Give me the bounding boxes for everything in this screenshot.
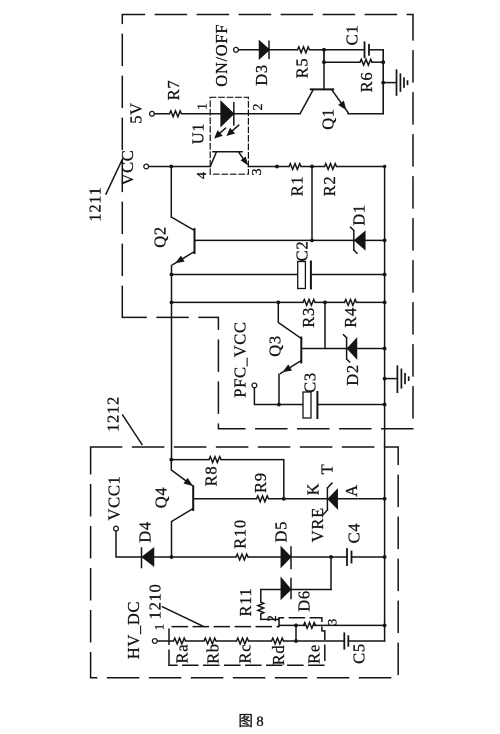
svg-text:VCC1: VCC1 (105, 476, 124, 521)
svg-text:D5: D5 (272, 521, 291, 543)
wire R11 to pin2 (261, 615, 279, 620)
terminal ON/OFF (234, 47, 239, 52)
svg-text:1211: 1211 (86, 186, 105, 221)
svg-text:U1: U1 (189, 123, 208, 145)
svg-text:Q3: Q3 (266, 335, 285, 357)
svg-text:3: 3 (250, 169, 265, 176)
svg-text:2: 2 (264, 615, 279, 622)
resistor R6 (360, 59, 372, 65)
svg-text:5V: 5V (127, 102, 146, 124)
resistor R4 (345, 300, 357, 306)
diode D3 (260, 41, 270, 58)
leader line 1212 (123, 415, 142, 445)
resistor R11 (258, 602, 264, 614)
svg-text:D6: D6 (295, 590, 314, 612)
svg-text:R3: R3 (299, 307, 318, 328)
resistor Rc (237, 638, 249, 644)
svg-text:1: 1 (196, 103, 211, 110)
svg-text:R9: R9 (251, 472, 270, 493)
resistor R7 (170, 111, 182, 117)
svg-text:Q2: Q2 (151, 226, 170, 248)
svg-text:R6: R6 (357, 72, 376, 93)
resistor R5 (298, 47, 310, 53)
svg-text:1: 1 (152, 624, 167, 631)
svg-text:Rd: Rd (269, 645, 288, 666)
svg-text:Q1: Q1 (319, 108, 338, 130)
capacitor C5 (344, 633, 384, 648)
opto phototransistor (pin4-pin3) (210, 152, 247, 167)
svg-text:3: 3 (325, 619, 340, 626)
resistor R8 (209, 457, 221, 463)
transistor Q4 (171, 460, 256, 557)
svg-text:HV_DC: HV_DC (124, 601, 143, 660)
wire pin2 row (Re) (279, 624, 385, 626)
svg-text:ON/OFF: ON/OFF (212, 24, 231, 87)
svg-text:C5: C5 (350, 643, 369, 664)
wire Re node down (295, 625, 297, 641)
resistor Rd (272, 638, 284, 644)
resistor Rb (204, 638, 216, 644)
optocoupler U1 dashed box (210, 97, 248, 174)
zener D2 (325, 335, 385, 362)
svg-text:Rb: Rb (203, 643, 222, 664)
capacitor C4 (331, 549, 385, 565)
svg-text:K: K (304, 483, 323, 496)
wire D4 node to R10 (172, 556, 236, 558)
resistor R1 (289, 164, 301, 170)
svg-text:R2: R2 (320, 176, 339, 197)
ground (PFC section) (385, 366, 409, 392)
wire U1 pin2 to Q1 collector (248, 113, 300, 115)
leader line 1211 (106, 159, 123, 194)
svg-text:1212: 1212 (104, 396, 123, 432)
wire R8 row (171, 460, 283, 499)
terminal PFC_VCC (252, 383, 257, 388)
svg-text:R8: R8 (202, 466, 221, 487)
dashed module box 1211 (122, 15, 413, 429)
svg-text:R11: R11 (236, 588, 255, 617)
wire 5V to R7 (154, 113, 169, 115)
wire ON/OFF to D3 (238, 49, 259, 51)
svg-text:T: T (318, 464, 337, 475)
wire VRE node down (330, 557, 332, 590)
wire right rail (384, 167, 386, 642)
resistor Re (304, 623, 316, 629)
wire Q1 base column (323, 50, 325, 62)
wire R3 row (172, 301, 385, 303)
wire D6 to R11 (260, 590, 262, 602)
svg-text:C3: C3 (301, 372, 320, 393)
wire right mini rail (382, 50, 384, 114)
svg-text:R1: R1 (288, 176, 307, 197)
thyristor T (323, 483, 385, 515)
resistor R2 (325, 164, 337, 170)
wire VCC rail down to Q2 (170, 167, 172, 218)
svg-text:1210: 1210 (146, 583, 165, 619)
svg-text:Rc: Rc (236, 644, 255, 664)
svg-text:C1: C1 (342, 25, 361, 46)
transistor Q3 (278, 302, 325, 404)
resistor Ra (174, 638, 186, 644)
svg-text:PFC_VCC: PFC_VCC (231, 321, 250, 397)
terminal HV_DC (152, 639, 157, 644)
diode D6 (261, 579, 331, 599)
wire VCC to U1 pin4 (149, 166, 211, 168)
wire R1/R2 junction down (311, 167, 313, 241)
labels (rotated) (86, 24, 377, 730)
resistor R10 (236, 554, 248, 560)
svg-text:A: A (342, 484, 361, 497)
resistor R9 (257, 496, 269, 502)
wire R6 to rail (373, 61, 384, 63)
svg-text:Ra: Ra (173, 644, 192, 664)
terminal VCC1 (114, 526, 119, 531)
wire HV chain (157, 640, 344, 642)
svg-text:R7: R7 (164, 80, 183, 101)
wire left rail (Q2 emitter down) (171, 265, 173, 459)
svg-text:D4: D4 (136, 521, 155, 543)
svg-text:D1: D1 (350, 204, 369, 226)
wire node to C1 (324, 49, 365, 51)
dashed module box 1210 (169, 618, 325, 666)
svg-text:4: 4 (195, 172, 210, 179)
svg-text:Re: Re (305, 644, 324, 664)
transistor Q1 (300, 50, 383, 114)
capacitor C2 (172, 262, 385, 289)
wire R9 to T (269, 498, 327, 500)
terminal 5V (150, 111, 155, 116)
svg-text:D3: D3 (252, 64, 271, 86)
dashed module box 1212 (91, 447, 399, 678)
wire node to R6 (324, 61, 360, 63)
svg-text:图 8: 图 8 (238, 714, 263, 730)
svg-text:R10: R10 (231, 519, 250, 549)
ground (top right) (383, 70, 407, 95)
capacitor C1 (365, 42, 384, 57)
svg-text:2: 2 (251, 104, 266, 111)
wire D3 to R5 (269, 49, 297, 51)
wire VCC1 to D4 (116, 531, 142, 557)
transistor Q2 (171, 217, 312, 265)
wire U1 pin3 row to rail (248, 166, 384, 168)
wire R5 to node (310, 49, 324, 51)
opto LED U1 (pin1-pin2) (210, 102, 248, 126)
wire R10 to D5 (249, 556, 282, 558)
svg-text:Q4: Q4 (152, 487, 171, 509)
diode D4 (142, 548, 172, 568)
svg-text:R5: R5 (293, 58, 312, 79)
wire R7 to U1 pin1 (182, 113, 210, 115)
svg-text:C4: C4 (344, 523, 363, 544)
wire PFC_VCC to emitter node (254, 388, 279, 405)
svg-text:D2: D2 (343, 364, 362, 386)
svg-text:R4: R4 (341, 307, 360, 328)
leader line 1210 (162, 607, 203, 627)
opto light arrows (215, 125, 239, 138)
capacitor C3 (279, 392, 385, 418)
svg-text:C2: C2 (293, 241, 312, 262)
svg-text:VRE: VRE (308, 507, 327, 542)
diode D5 (281, 547, 331, 569)
resistor R3 (303, 300, 315, 306)
terminal VCC (144, 164, 149, 169)
svg-text:VCC: VCC (118, 149, 137, 185)
zener D1 (312, 227, 385, 253)
